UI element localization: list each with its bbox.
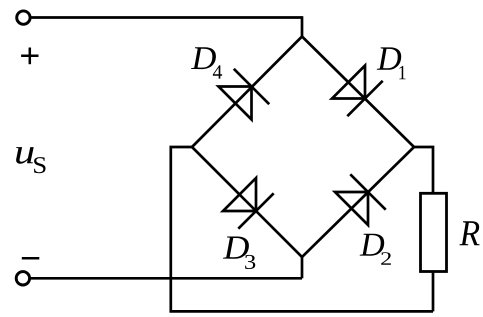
label D1 (subscript 1) [399,66,405,79]
diode D4 triangle [219,87,252,120]
diode D3 cathode bar [238,193,273,228]
wire top horizontal [31,16,302,19]
wire bottom terminal horizontal [30,277,302,280]
label D2 (subscript 2) [381,252,391,265]
wire drop from top rail to bridge top node [301,16,304,36]
wire right node down through resistor to bottom rail [414,147,433,311]
label D3 (D) [223,236,249,258]
polarity plus sign [21,48,38,65]
label D2 (D) [360,234,385,256]
label R [459,221,479,245]
resistor R body [421,193,447,271]
diode D1 cathode bar [347,81,382,116]
diode D2 triangle [335,192,368,225]
diode D4 cathode bar [234,69,269,104]
label uS (S subscript) [34,157,45,173]
wire bridge edge: top node to right node (D1 branch) [302,37,414,148]
wire bridge edge: left node to bottom node (D3 branch) [192,147,302,257]
label D1 (D) [377,47,401,69]
wire left node to bottom rail [171,147,433,311]
label uS (u) [16,147,34,164]
label D4 (subscript 4) [213,65,222,78]
label D4 (D) [191,47,216,69]
wire bridge edge: bottom node to right node (D2 branch) [302,147,414,257]
terminal top-left (+) [17,11,30,24]
diode D2 cathode bar [350,174,385,209]
terminal bottom-left (-) [16,272,29,285]
diode D1 triangle [332,66,365,99]
diode D3 triangle [223,178,256,211]
label D3 (subscript 3) [245,255,255,269]
wire bottom node stub [301,257,304,278]
wire bridge edge: left node to top node (D4 branch) [192,37,302,148]
polarity minus sign [22,257,40,260]
